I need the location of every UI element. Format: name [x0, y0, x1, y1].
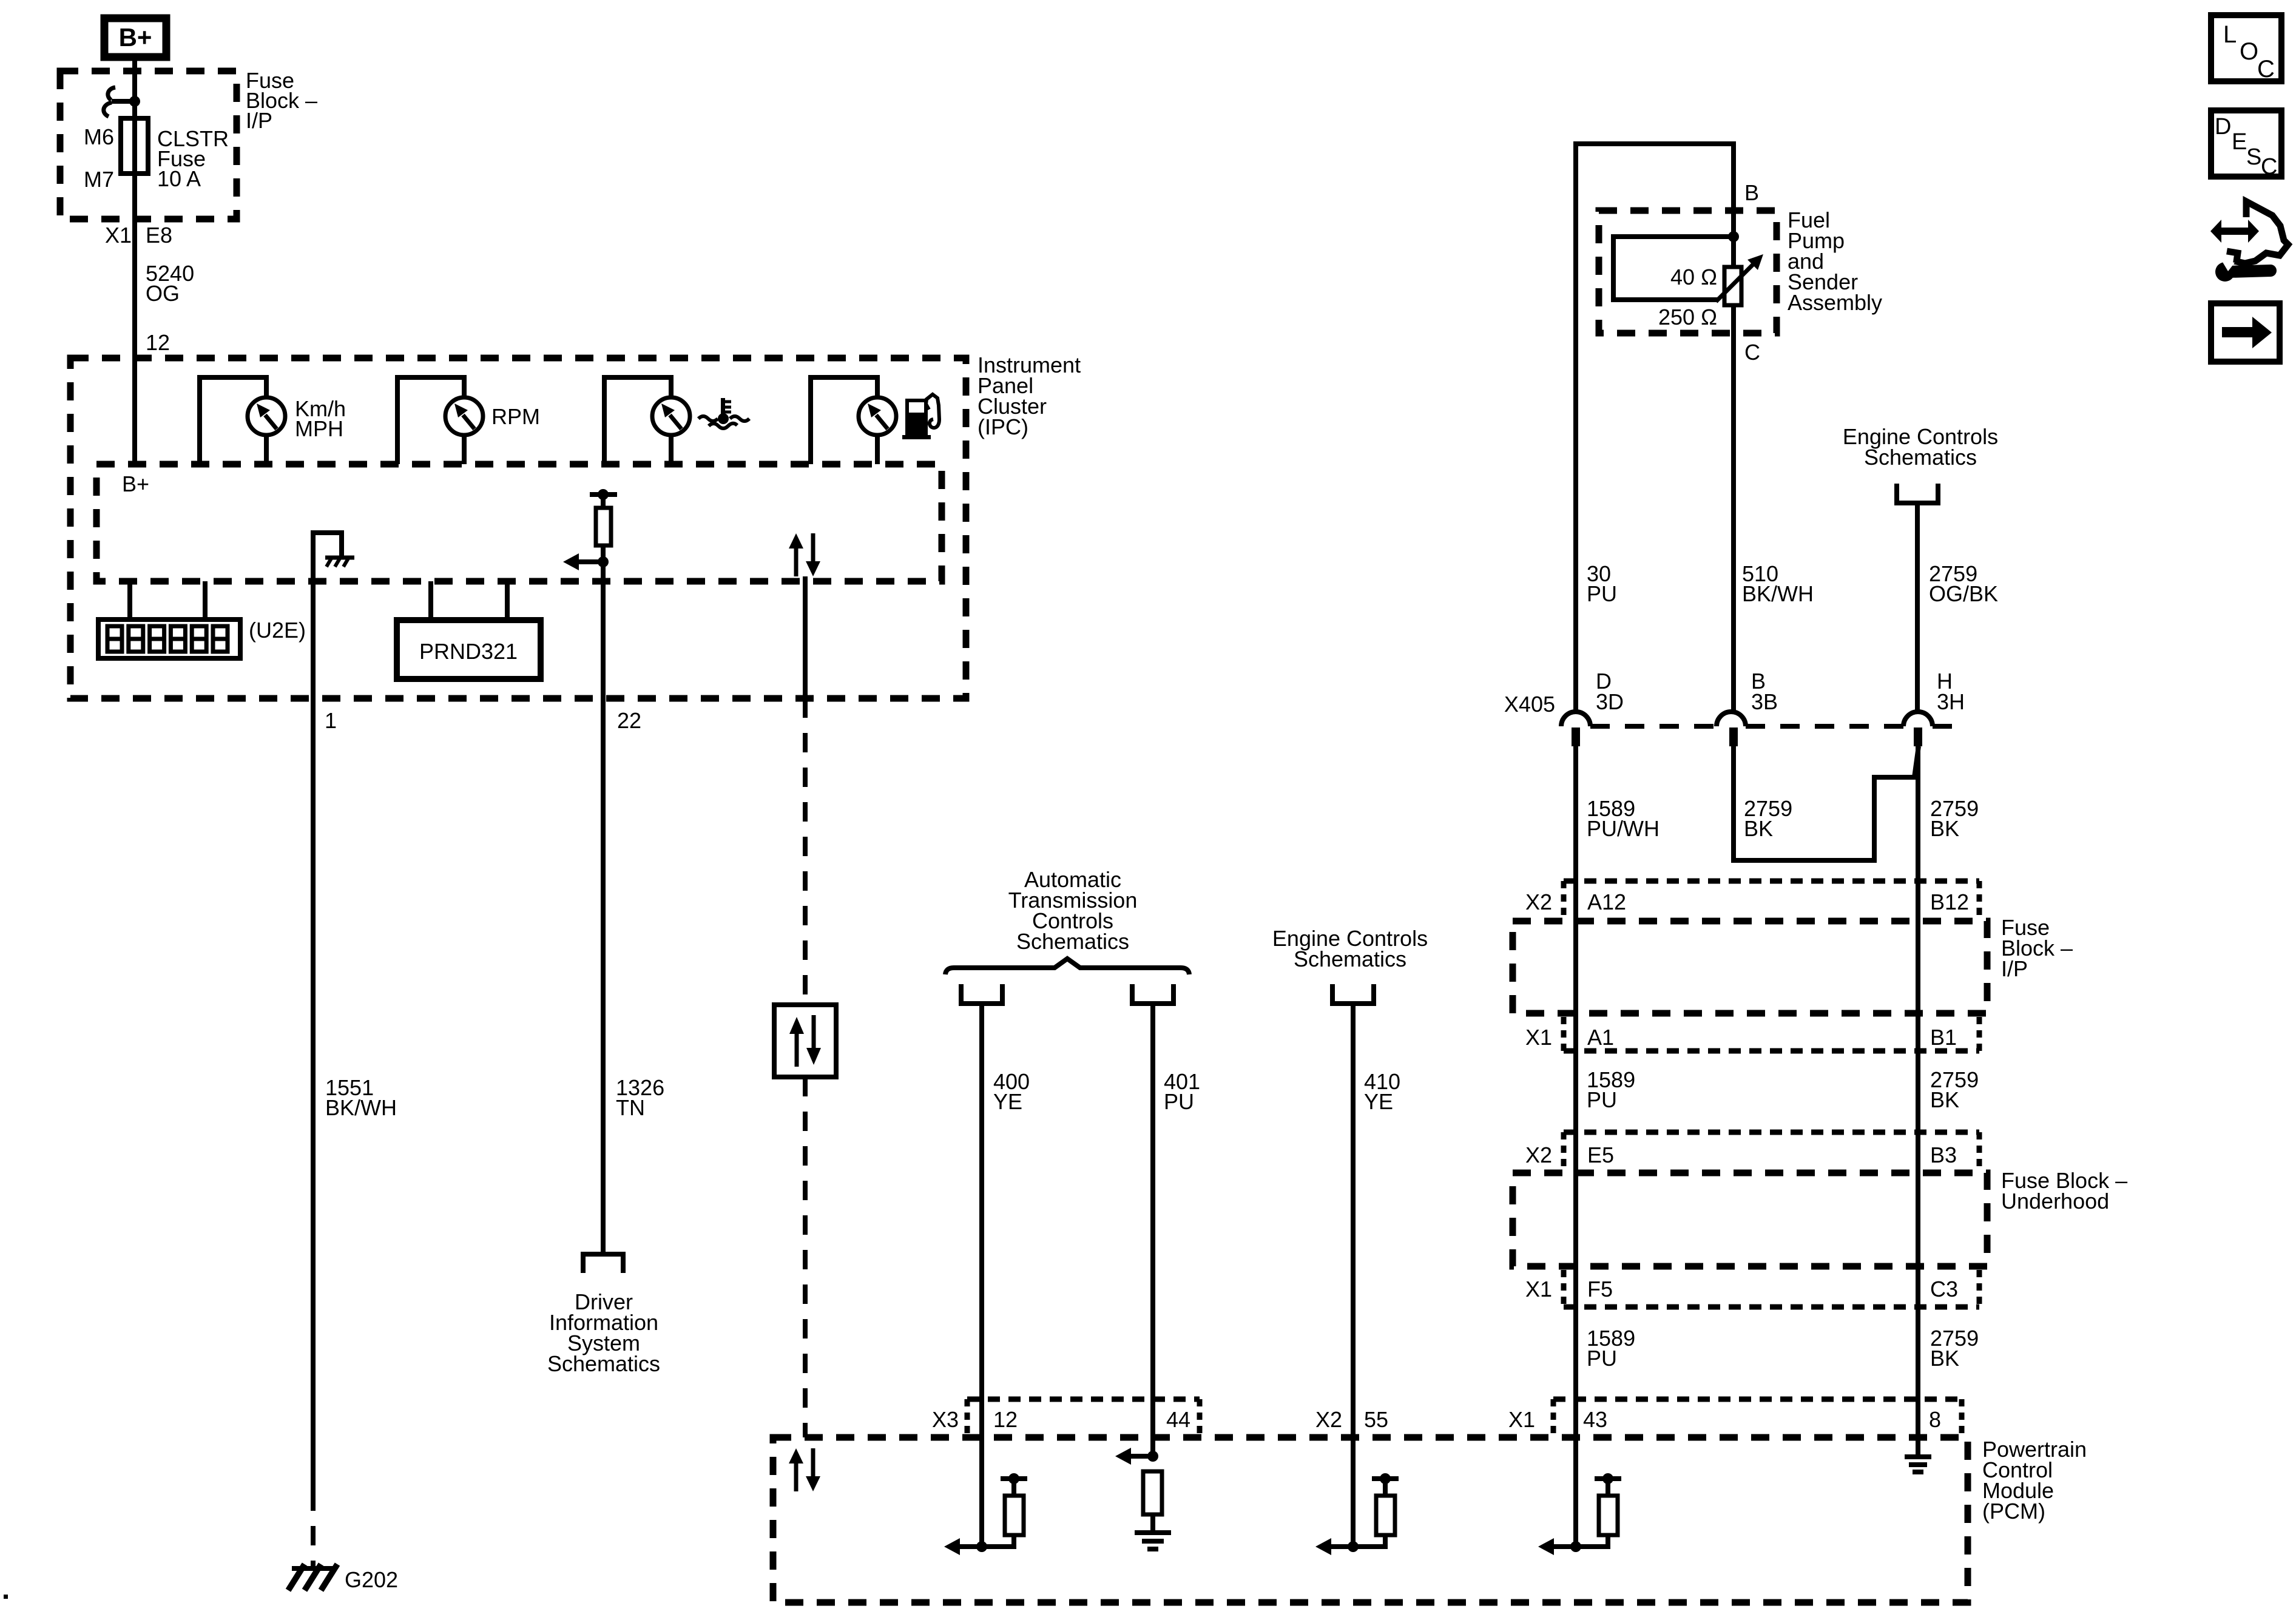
sender wiper arrow: [1716, 254, 1763, 302]
svg-text:X2: X2: [1315, 1407, 1342, 1432]
label Driver Information System Schematics: [547, 1289, 660, 1376]
wire label 1551 BK/WH: [325, 1075, 397, 1120]
X405 terminal pins: [1572, 727, 1922, 746]
svg-text:X405: X405: [1504, 692, 1555, 717]
label B+ (internal bus): [122, 471, 149, 496]
wire 30 PU / routing loop to fuel pump B: [1576, 144, 1734, 712]
pin label 1: [325, 708, 337, 733]
label Engine Controls Schematics (top right): [1843, 424, 1998, 470]
fuel pump icon: [902, 394, 939, 439]
label RPM: [491, 404, 540, 429]
Powertrain Control Module dashed box: [773, 1437, 1968, 1602]
svg-text:1: 1: [325, 708, 337, 733]
wire label 2759 BK (left): [1744, 796, 1792, 841]
wire 401 PU: [1150, 1004, 1155, 1456]
svg-text:X1: X1: [105, 223, 132, 248]
svg-text:BK/WH: BK/WH: [1742, 581, 1814, 606]
svg-text:C3: C3: [1930, 1277, 1958, 1301]
X405 connector arcs and dashed row: [1561, 712, 1953, 726]
svg-text:Schematics: Schematics: [547, 1351, 660, 1376]
B+ battery positive voltage box: [104, 18, 166, 57]
fuse block I/P dashed box (right column): [1513, 921, 1987, 1013]
svg-text:D: D: [2215, 114, 2231, 140]
PCM internal ground at pin 8: [1905, 1457, 1931, 1472]
Instrument Panel Cluster outer dashed box: [70, 358, 966, 698]
svg-text:Schematics: Schematics: [1016, 929, 1129, 954]
svg-text:B1: B1: [1930, 1025, 1957, 1050]
pin labels B 3B: [1751, 669, 1778, 714]
svg-text:BK: BK: [1744, 816, 1773, 841]
fuse element stub and curl: [104, 87, 135, 116]
pin labels D 3D: [1596, 669, 1624, 714]
svg-text:C: C: [2261, 154, 2277, 180]
fuel gauge: [811, 377, 896, 464]
fuel level sender float loop: [1613, 237, 1734, 300]
svg-text:22: 22: [617, 708, 641, 733]
wire label 401 PU: [1164, 1069, 1200, 1114]
IPC internal B+ bus dashed box: [96, 464, 942, 581]
wire label 2759 OG/BK: [1929, 561, 1998, 606]
label X2 (A12 row): [1525, 890, 1552, 914]
connector row X3 12 44: [967, 1399, 1200, 1434]
pin label A12: [1587, 890, 1626, 914]
label Km/h MPH: [295, 396, 346, 441]
PCM internal circuit at pin 44 (pull-down to ground): [1115, 1448, 1171, 1549]
label CLSTR Fuse 10 A: [157, 126, 229, 191]
svg-text:250 Ω: 250 Ω: [1658, 305, 1717, 329]
label M6: [84, 124, 114, 149]
fuse block I/P dashed box (top): [60, 71, 237, 219]
connector row X1 F5 C3: [1564, 1270, 1979, 1307]
svg-text:A12: A12: [1587, 890, 1626, 914]
pin label 55: [1364, 1407, 1388, 1432]
svg-text:B: B: [1744, 180, 1759, 205]
label X2 (E5 row): [1525, 1143, 1552, 1167]
svg-text:OG: OG: [146, 281, 180, 306]
svg-text:44: 44: [1166, 1407, 1190, 1432]
svg-text:3D: 3D: [1596, 689, 1624, 714]
IPC internal serial data arrows (up/down): [789, 533, 820, 576]
off-page connector ATC wire 401: [1132, 984, 1173, 1004]
PRND321 gear indicator leads: [431, 581, 507, 620]
ground G202 chassis ground symbol: [288, 1564, 337, 1590]
label 250 ohm: [1658, 305, 1717, 329]
pin label C (fuel pump): [1744, 340, 1760, 365]
pin label B (fuel pump): [1744, 180, 1759, 205]
svg-text:B3: B3: [1930, 1143, 1957, 1167]
svg-text:E5: E5: [1587, 1143, 1614, 1167]
svg-text:C: C: [1744, 340, 1760, 365]
pin label C3: [1930, 1277, 1958, 1301]
junction dot on fuse feed: [129, 96, 140, 107]
wire 2759 BK main ground run: [1916, 746, 1920, 1455]
svg-text:BK: BK: [1930, 1346, 1959, 1371]
svg-text:E8: E8: [146, 223, 172, 248]
label X1 (F5 row): [1525, 1277, 1552, 1301]
svg-text:X3: X3: [932, 1407, 959, 1432]
boxed serial data up/down arrows symbol: [774, 1005, 836, 1077]
pin label 22: [617, 708, 641, 733]
LOC icon box: [2211, 15, 2281, 83]
svg-text:E: E: [2232, 129, 2247, 155]
svg-text:PU: PU: [1587, 581, 1617, 606]
svg-text:Schematics: Schematics: [1294, 947, 1406, 971]
wire 1589 PU/WH: [1573, 746, 1578, 1547]
PCM internal serial data arrows: [789, 1448, 820, 1491]
label X1 (A1 row): [1525, 1025, 1552, 1050]
wire B+ feed to CLSTR fuse: [132, 57, 137, 464]
svg-text:G202: G202: [345, 1567, 398, 1592]
svg-text:M7: M7: [84, 167, 114, 192]
label X2 (pin 55): [1315, 1407, 1342, 1432]
svg-text:8: 8: [1929, 1407, 1941, 1432]
fuel pump and sender dashed box: [1599, 211, 1777, 333]
svg-text:O: O: [2240, 38, 2258, 65]
pin labels H 3H: [1937, 669, 1965, 714]
svg-text:PU: PU: [1587, 1087, 1617, 1112]
pin label F5: [1587, 1277, 1613, 1301]
pin label 44: [1166, 1407, 1190, 1432]
svg-text:YE: YE: [1364, 1089, 1393, 1114]
coolant temperature gauge: [604, 377, 690, 464]
svg-text:PU: PU: [1164, 1089, 1194, 1114]
wire label 1589 PU (lower): [1587, 1326, 1635, 1371]
PCM internal circuit at pin 12: [944, 1473, 1027, 1555]
label Powertrain Control Module (PCM): [1982, 1437, 2087, 1524]
label Fuse Block - I/P (top): [246, 68, 317, 133]
wire label 510 BK/WH: [1742, 561, 1814, 606]
svg-text:PRND321: PRND321: [419, 639, 518, 664]
wire 1326 TN (pin 22 to DIS): [601, 698, 606, 1252]
label 40 ohm: [1670, 265, 1717, 289]
IPC internal ground wire (pin 1 circuit): [313, 533, 342, 698]
wire label 1326 TN: [616, 1075, 664, 1120]
tachometer gauge (RPM): [397, 377, 483, 464]
svg-text:(U2E): (U2E): [249, 618, 306, 643]
svg-text:Underhood: Underhood: [2001, 1189, 2109, 1214]
PRND321 gear indicator box: [397, 620, 541, 679]
svg-text:I/P: I/P: [2001, 956, 2028, 981]
pin label B1: [1930, 1025, 1957, 1050]
svg-text:55: 55: [1364, 1407, 1388, 1432]
svg-text:OG/BK: OG/BK: [1929, 581, 1998, 606]
wire 2759 BK from 3B joining 3H branch: [1734, 746, 1919, 860]
PCM internal circuit at pin 43: [1538, 1473, 1621, 1555]
svg-text:PU/WH: PU/WH: [1587, 816, 1660, 841]
label (U2E): [249, 618, 306, 643]
svg-text:3H: 3H: [1937, 689, 1965, 714]
svg-text:Assembly: Assembly: [1788, 290, 1882, 315]
off-page connector to Driver Information System: [583, 1254, 623, 1273]
svg-text:BK/WH: BK/WH: [325, 1095, 397, 1120]
svg-text:MPH: MPH: [295, 416, 343, 441]
label M7: [84, 167, 114, 192]
pin label B12: [1930, 890, 1969, 914]
service hand and wrench icon: [2210, 201, 2288, 282]
dashed serial data wire IPC to PCM: [803, 576, 808, 1437]
IPC internal fuel gauge resistor (pin 22 circuit): [590, 489, 617, 698]
svg-text:12: 12: [146, 330, 170, 355]
wire 400 YE: [979, 1004, 984, 1547]
sender variable resistor: [1724, 237, 1741, 712]
svg-text:10 A: 10 A: [157, 166, 201, 191]
label X405: [1504, 692, 1555, 717]
svg-text:X1: X1: [1525, 1025, 1552, 1050]
fuse block underhood dashed box: [1513, 1173, 1987, 1266]
wire label 2759 BK (mid): [1930, 1067, 1979, 1112]
wire label 2759 BK (lower): [1930, 1326, 1979, 1371]
wire label 1589 PU (mid): [1587, 1067, 1635, 1112]
connector row X1 43 8: [1553, 1399, 1962, 1434]
off-page connector Engine Controls (top right): [1897, 484, 1938, 503]
svg-text:3B: 3B: [1751, 689, 1778, 714]
wire label 410 YE: [1364, 1069, 1400, 1114]
svg-text:(IPC): (IPC): [977, 414, 1028, 439]
wire label 5240 OG: [146, 261, 194, 306]
speedometer gauge (Km/h MPH): [200, 377, 285, 464]
svg-text:B12: B12: [1930, 890, 1969, 914]
svg-text:L: L: [2223, 21, 2237, 48]
wire label 2759 BK (right): [1930, 796, 1979, 841]
wire 1551 BK/WH (IPC ground to G202): [311, 698, 316, 1568]
off-page connector Engine Controls wire 410: [1332, 984, 1374, 1004]
pin label 12 (IPC): [146, 330, 170, 355]
wire label 400 YE: [993, 1069, 1030, 1114]
(U2E) seven segment odometer display: [98, 619, 240, 658]
wire label 30 PU: [1587, 561, 1617, 606]
connector row X2 E5 B3: [1564, 1132, 1979, 1169]
connector row X1 A1 B1: [1564, 1017, 1979, 1051]
PCM internal circuit at pin 55: [1315, 1473, 1399, 1555]
pin label B3: [1930, 1143, 1957, 1167]
label Fuse Block - Underhood: [2001, 1168, 2127, 1214]
svg-text:RPM: RPM: [491, 404, 540, 429]
label G202: [345, 1567, 398, 1592]
junction dot at sender wiper: [1728, 231, 1739, 242]
svg-text:B+: B+: [122, 471, 149, 496]
svg-text:C: C: [2257, 56, 2275, 83]
svg-text:X2: X2: [1525, 890, 1552, 914]
label X1 (pin 43): [1508, 1407, 1535, 1432]
svg-text:X1: X1: [1525, 1277, 1552, 1301]
svg-text:40 Ω: 40 Ω: [1670, 265, 1717, 289]
CLSTR fuse rectangle: [121, 118, 148, 174]
svg-text:X2: X2: [1525, 1143, 1552, 1167]
wire 2759 OG/BK: [1915, 503, 1920, 712]
next page arrow icon box: [2211, 303, 2280, 362]
svg-text:BK: BK: [1930, 816, 1959, 841]
DESC icon box: [2211, 110, 2281, 180]
svg-text:Schematics: Schematics: [1864, 445, 1977, 470]
page corner mark: [4, 1595, 8, 1599]
svg-text:X1: X1: [1508, 1407, 1535, 1432]
svg-text:BK: BK: [1930, 1087, 1959, 1112]
svg-text:S: S: [2246, 144, 2261, 170]
pin label 43: [1583, 1407, 1607, 1432]
pin label A1: [1587, 1025, 1614, 1050]
svg-text:I/P: I/P: [246, 108, 272, 133]
label Engine Controls Schematics (middle): [1272, 926, 1428, 971]
connector label X1 E8: [105, 223, 172, 248]
IPC internal measurement arrow at pin 22 node: [563, 553, 609, 570]
label Fuel Pump and Sender Assembly: [1788, 208, 1882, 315]
label Automatic Transmission Controls Schematics: [1008, 867, 1138, 954]
svg-text:(PCM): (PCM): [1982, 1499, 2045, 1524]
connector row X2 A12 B12: [1564, 881, 1979, 917]
wire 410 YE: [1351, 1004, 1356, 1547]
(U2E) odometer display leads: [130, 581, 205, 619]
svg-text:43: 43: [1583, 1407, 1607, 1432]
svg-text:B+: B+: [119, 23, 152, 52]
svg-text:PU: PU: [1587, 1346, 1617, 1371]
label Fuse Block - I/P (right): [2001, 915, 2073, 981]
label Instrument Panel Cluster (IPC): [977, 353, 1081, 439]
IPC internal chassis ground symbol: [325, 556, 354, 567]
svg-text:YE: YE: [993, 1089, 1022, 1114]
coolant temperature icon: [698, 398, 749, 428]
wire label 1589 PU/WH: [1587, 796, 1660, 841]
pin label 8: [1929, 1407, 1941, 1432]
svg-text:TN: TN: [616, 1095, 645, 1120]
svg-text:F5: F5: [1587, 1277, 1613, 1301]
off-page connector ATC wire 400: [961, 984, 1002, 1004]
svg-text:A1: A1: [1587, 1025, 1614, 1050]
pin label 12: [993, 1407, 1018, 1432]
svg-text:M6: M6: [84, 124, 114, 149]
label X3: [932, 1407, 959, 1432]
svg-text:12: 12: [993, 1407, 1018, 1432]
pin label E5: [1587, 1143, 1614, 1167]
curly brace over ATC wires: [945, 959, 1189, 974]
